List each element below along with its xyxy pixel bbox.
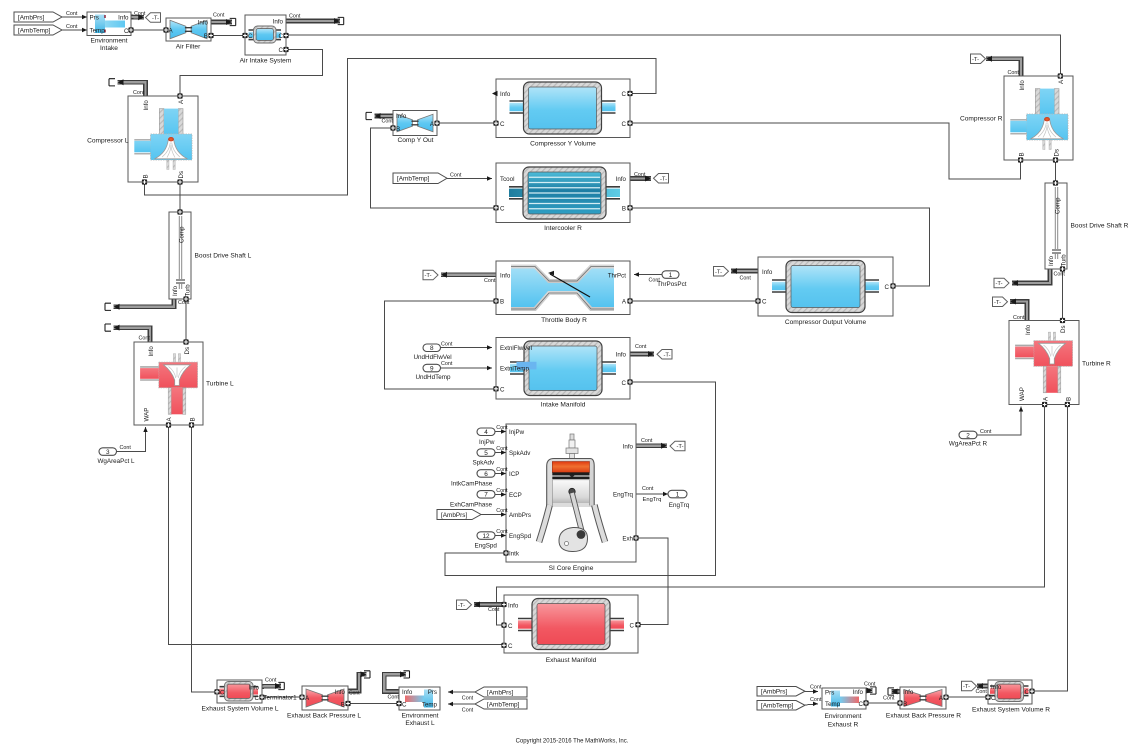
svg-text:Cont: Cont <box>810 684 822 690</box>
svg-text:Cont: Cont <box>980 429 992 435</box>
svg-text:Compressor L: Compressor L <box>87 138 129 145</box>
svg-text:ThrPosPct: ThrPosPct <box>657 281 687 288</box>
svg-text:Prs: Prs <box>90 15 99 22</box>
svg-text:C: C <box>508 643 513 650</box>
svg-text:Info: Info <box>249 684 260 691</box>
svg-text:-T-: -T- <box>676 444 683 450</box>
svg-text:C: C <box>508 623 513 630</box>
svg-text:Environment: Environment <box>90 37 127 44</box>
svg-text:Cont: Cont <box>441 361 453 367</box>
svg-text:Boost Drive Shaft L: Boost Drive Shaft L <box>195 253 252 260</box>
svg-text:[AmbPrs]: [AmbPrs] <box>761 689 788 696</box>
svg-text:Cont: Cont <box>388 695 400 701</box>
svg-text:Temp: Temp <box>422 701 438 708</box>
svg-text:Cont: Cont <box>634 172 646 178</box>
svg-text:C: C <box>124 28 129 35</box>
svg-text:Cont: Cont <box>635 344 647 350</box>
svg-text:Cont: Cont <box>810 697 822 703</box>
svg-text:B: B <box>622 206 626 213</box>
svg-text:Info: Info <box>198 20 209 27</box>
svg-text:Compressor Output Volume: Compressor Output Volume <box>785 319 867 326</box>
svg-text:WAP: WAP <box>144 408 151 422</box>
svg-text:AmbPrs: AmbPrs <box>509 512 531 519</box>
svg-text:Info: Info <box>508 602 519 609</box>
svg-text:WgAreaPct R: WgAreaPct R <box>949 441 988 448</box>
svg-text:9: 9 <box>430 365 434 372</box>
svg-text:Ds: Ds <box>184 347 191 355</box>
svg-text:B: B <box>903 701 907 708</box>
svg-text:SI Core Engine: SI Core Engine <box>549 565 594 572</box>
svg-text:Info: Info <box>616 176 627 183</box>
svg-text:Cont: Cont <box>134 11 146 17</box>
svg-text:Info: Info <box>273 19 284 26</box>
svg-text:Intk: Intk <box>509 551 520 558</box>
svg-text:B: B <box>204 33 208 40</box>
svg-text:B: B <box>1019 152 1026 156</box>
svg-text:Intercooler R: Intercooler R <box>544 225 582 232</box>
svg-text:Info: Info <box>903 689 914 696</box>
svg-text:6: 6 <box>484 471 488 478</box>
svg-text:Ds: Ds <box>1054 149 1061 157</box>
svg-text:Cont: Cont <box>1054 272 1066 278</box>
svg-text:B: B <box>1065 397 1072 401</box>
svg-text:1: 1 <box>669 272 673 279</box>
svg-text:C: C <box>1025 689 1030 696</box>
svg-text:Environment: Environment <box>824 713 861 720</box>
svg-text:[AmbPrs]: [AmbPrs] <box>487 689 514 696</box>
svg-text:-T-: -T- <box>995 281 1002 287</box>
svg-text:C: C <box>500 206 505 213</box>
svg-text:Cont: Cont <box>462 695 474 701</box>
svg-text:Exhaust Back Pressure R: Exhaust Back Pressure R <box>886 712 961 719</box>
svg-text:InjPw: InjPw <box>479 439 495 446</box>
svg-text:5: 5 <box>484 450 488 457</box>
svg-text:Turb: Turb <box>186 284 192 297</box>
svg-text:Info: Info <box>991 684 1002 691</box>
svg-text:C: C <box>279 33 284 40</box>
svg-text:[AmbTemp]: [AmbTemp] <box>18 27 51 34</box>
svg-text:Boost Drive Shaft R: Boost Drive Shaft R <box>1071 223 1129 230</box>
svg-text:Cont: Cont <box>496 425 508 431</box>
svg-text:Cont: Cont <box>382 119 394 125</box>
svg-text:Info: Info <box>173 285 179 296</box>
svg-text:Air Filter: Air Filter <box>176 43 201 50</box>
svg-text:Intake: Intake <box>100 45 118 52</box>
svg-text:C: C <box>402 701 407 708</box>
svg-text:C: C <box>279 47 284 54</box>
svg-text:Terminator1: Terminator1 <box>263 695 297 702</box>
svg-text:Cont: Cont <box>178 300 190 306</box>
svg-text:Info: Info <box>1049 255 1055 266</box>
svg-text:-T-: -T- <box>994 300 1001 306</box>
svg-text:Info: Info <box>853 689 864 696</box>
svg-text:Compressor Y Volume: Compressor Y Volume <box>530 141 596 148</box>
svg-text:Turbine L: Turbine L <box>206 381 234 388</box>
svg-text:Cont: Cont <box>740 276 752 282</box>
svg-text:B: B <box>190 417 197 421</box>
svg-text:-T-: -T- <box>663 352 670 358</box>
svg-text:C: C <box>500 121 505 128</box>
svg-text:Cont: Cont <box>976 689 988 695</box>
svg-text:Cont: Cont <box>496 446 508 452</box>
svg-text:B: B <box>396 126 400 133</box>
svg-text:Cont: Cont <box>120 445 132 451</box>
svg-text:3: 3 <box>106 449 110 456</box>
svg-text:InjPw: InjPw <box>509 429 525 436</box>
svg-text:ICP: ICP <box>509 471 519 478</box>
svg-text:8: 8 <box>430 345 434 352</box>
svg-text:Turb: Turb <box>1062 254 1068 267</box>
svg-text:EngTrq: EngTrq <box>613 492 634 499</box>
svg-text:-T-: -T- <box>715 269 722 275</box>
svg-text:1: 1 <box>676 491 680 498</box>
svg-text:Info: Info <box>148 346 155 357</box>
svg-text:Cont: Cont <box>66 24 78 30</box>
svg-text:C: C <box>248 33 253 40</box>
svg-text:ExtnlTemp: ExtnlTemp <box>500 366 529 373</box>
svg-text:Info: Info <box>1025 324 1032 335</box>
svg-text:Prs: Prs <box>428 689 437 696</box>
svg-text:EngTrq: EngTrq <box>643 497 662 503</box>
svg-text:[AmbTemp]: [AmbTemp] <box>487 701 520 708</box>
svg-text:Cont: Cont <box>642 486 654 492</box>
svg-text:WgAreaPct L: WgAreaPct L <box>97 458 135 465</box>
svg-text:Cont: Cont <box>496 529 508 535</box>
svg-text:Info: Info <box>396 113 407 120</box>
svg-text:Cont: Cont <box>66 11 78 17</box>
svg-text:EngSpd: EngSpd <box>475 542 498 549</box>
svg-text:-T-: -T- <box>660 176 667 182</box>
svg-text:ExhCamPhase: ExhCamPhase <box>450 501 492 508</box>
svg-text:C: C <box>500 387 505 394</box>
svg-text:7: 7 <box>484 492 488 499</box>
svg-text:Cont: Cont <box>441 342 453 348</box>
svg-text:Cont: Cont <box>1008 70 1020 76</box>
svg-text:Cont: Cont <box>133 90 145 96</box>
svg-text:Exhaust Manifold: Exhaust Manifold <box>546 657 597 664</box>
svg-text:C: C <box>622 380 627 387</box>
svg-text:Prs: Prs <box>825 690 834 697</box>
svg-text:[AmbTemp]: [AmbTemp] <box>761 703 794 710</box>
svg-text:Info: Info <box>143 100 150 111</box>
svg-text:Exh: Exh <box>622 536 633 543</box>
svg-text:B: B <box>341 701 345 708</box>
svg-text:Info: Info <box>500 272 511 279</box>
svg-text:Cont: Cont <box>450 172 462 178</box>
svg-text:Cont: Cont <box>213 13 225 19</box>
svg-text:UndHdTemp: UndHdTemp <box>416 374 451 381</box>
svg-text:B: B <box>500 299 504 306</box>
svg-text:Cont: Cont <box>641 438 653 444</box>
svg-text:12: 12 <box>482 533 490 540</box>
svg-text:Cont: Cont <box>349 690 360 696</box>
svg-text:-T-: -T- <box>424 273 431 279</box>
svg-text:Exhaust System Volume L: Exhaust System Volume L <box>202 706 279 713</box>
svg-text:Cont: Cont <box>496 508 508 514</box>
svg-text:Environment: Environment <box>401 712 438 719</box>
svg-text:C: C <box>220 690 225 697</box>
svg-text:Info: Info <box>118 15 129 22</box>
svg-text:Copyright 2015-2016 The MathWo: Copyright 2015-2016 The MathWorks, Inc. <box>516 738 629 744</box>
svg-text:Info: Info <box>623 443 634 450</box>
svg-text:Cont: Cont <box>484 278 496 284</box>
svg-text:Throttle Body R: Throttle Body R <box>541 317 587 324</box>
svg-text:Exhaust R: Exhaust R <box>828 721 859 728</box>
svg-text:Cont: Cont <box>488 607 500 613</box>
svg-text:WAP: WAP <box>1019 387 1026 401</box>
svg-text:Info: Info <box>1019 80 1026 91</box>
svg-text:B: B <box>143 174 150 178</box>
svg-text:C: C <box>622 91 627 98</box>
svg-text:Exhaust L: Exhaust L <box>405 720 435 727</box>
svg-text:Cont: Cont <box>462 707 474 713</box>
svg-text:Compressor R: Compressor R <box>960 115 1003 122</box>
svg-text:UndHdFlwVel: UndHdFlwVel <box>414 354 452 361</box>
svg-text:Temp: Temp <box>825 701 841 708</box>
svg-text:Comp: Comp <box>179 226 186 243</box>
svg-text:Air Intake System: Air Intake System <box>240 58 292 65</box>
svg-text:Comp: Comp <box>1055 197 1062 214</box>
svg-text:C: C <box>885 284 890 291</box>
svg-text:Tcool: Tcool <box>500 176 514 183</box>
svg-text:Cont: Cont <box>139 335 151 341</box>
svg-text:Cont: Cont <box>496 488 508 494</box>
svg-text:Ds: Ds <box>178 171 185 179</box>
svg-text:ExtnlFlwVel: ExtnlFlwVel <box>500 345 532 352</box>
svg-text:C: C <box>622 121 627 128</box>
svg-text:Cont: Cont <box>265 678 277 684</box>
svg-text:-T-: -T- <box>458 603 465 609</box>
svg-text:2: 2 <box>966 432 970 439</box>
svg-text:C: C <box>630 623 635 630</box>
svg-text:Intake Manifold: Intake Manifold <box>541 402 586 409</box>
svg-text:ECP: ECP <box>509 492 522 499</box>
svg-text:Cont: Cont <box>1013 315 1025 321</box>
svg-text:ThrPct: ThrPct <box>608 272 627 279</box>
svg-text:EngTrq: EngTrq <box>669 502 690 509</box>
svg-text:SpkAdv: SpkAdv <box>473 460 496 467</box>
svg-text:Cont: Cont <box>289 13 301 19</box>
svg-text:C: C <box>255 695 260 702</box>
svg-text:4: 4 <box>484 429 488 436</box>
svg-text:[AmbTemp]: [AmbTemp] <box>397 176 430 183</box>
svg-text:Cont: Cont <box>496 467 508 473</box>
svg-text:Comp Y Out: Comp Y Out <box>397 137 433 144</box>
svg-text:Info: Info <box>500 91 511 98</box>
svg-text:-T-: -T- <box>152 16 159 22</box>
svg-text:Exhaust Back Pressure L: Exhaust Back Pressure L <box>287 713 361 720</box>
svg-text:Info: Info <box>402 689 413 696</box>
svg-text:IntkCamPhase: IntkCamPhase <box>451 481 493 488</box>
svg-text:SpkAdv: SpkAdv <box>509 450 531 457</box>
svg-text:Turbine R: Turbine R <box>1082 361 1111 368</box>
svg-text:C: C <box>991 695 996 702</box>
svg-text:C: C <box>859 701 864 708</box>
svg-text:Info: Info <box>762 269 773 276</box>
svg-text:Exhaust System Volume R: Exhaust System Volume R <box>972 707 1050 714</box>
svg-text:-T-: -T- <box>972 57 979 63</box>
svg-text:Info: Info <box>616 352 627 359</box>
svg-text:C: C <box>762 299 767 306</box>
svg-text:[AmbPrs]: [AmbPrs] <box>18 14 45 21</box>
svg-text:[AmbPrs]: [AmbPrs] <box>441 512 468 519</box>
svg-text:Ds: Ds <box>1060 325 1067 333</box>
svg-text:-T-: -T- <box>963 684 970 690</box>
svg-text:Temp: Temp <box>90 28 106 35</box>
svg-text:EngSpd: EngSpd <box>509 533 532 540</box>
svg-text:Cont: Cont <box>883 696 895 702</box>
svg-text:Info: Info <box>335 689 346 696</box>
svg-text:Cont: Cont <box>864 681 876 687</box>
